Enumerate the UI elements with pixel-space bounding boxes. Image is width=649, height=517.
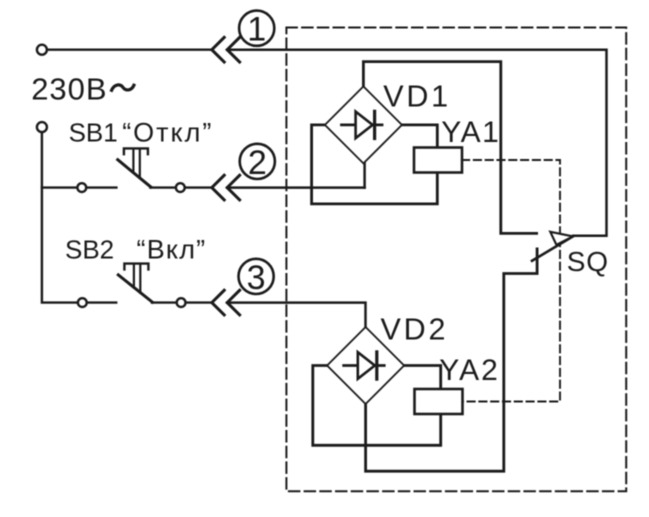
- SB1 actuator stem left: [132, 150, 134, 173]
- SB1 actuator cap: [124, 148, 148, 154]
- bridge VD1 left loop to YA1 bottom: [312, 125, 438, 204]
- node circle 3: [239, 259, 274, 294]
- label Vkl: [137, 235, 207, 265]
- svg-text:SB2: SB2: [65, 235, 114, 265]
- bridge VD1 top lead to SQ: [363, 62, 536, 234]
- VD1 diode triangle: [356, 112, 373, 139]
- connector X3 chevron 2: [227, 290, 239, 315]
- SB2 right contact circle: [177, 298, 186, 307]
- connector X2 chevron 2: [227, 175, 239, 200]
- SB2 left contact circle: [78, 298, 87, 307]
- label VD1: [383, 79, 451, 113]
- VD2 diode axis: [344, 364, 385, 367]
- svg-text:YA2: YA2: [439, 354, 499, 387]
- label SB2: [65, 235, 114, 265]
- SB2 wire left: [76, 301, 79, 303]
- connector X1 chevron 2: [227, 37, 239, 62]
- svg-text:230В: 230В: [31, 72, 107, 107]
- bridge VD1 bottom lead: [363, 163, 366, 188]
- button SB1: [42, 148, 212, 192]
- SB2 actuator cap: [124, 264, 148, 270]
- label SB1: [69, 118, 118, 148]
- SB1 blade: [118, 160, 151, 187]
- svg-text:SB1: SB1: [69, 118, 118, 148]
- SB2 wire to gap: [87, 301, 116, 303]
- button SB2: [78, 264, 212, 307]
- SB1 right contact circle: [176, 183, 185, 192]
- svg-text:VD2: VD2: [381, 313, 449, 347]
- bridge VD2 diamond: [327, 327, 404, 404]
- VD1 diode axis: [342, 124, 383, 127]
- SB2 wire right of blade: [152, 301, 177, 303]
- wire 1 left segment: [47, 49, 212, 51]
- coil YA1: [414, 148, 462, 173]
- terminal circle left rail: [37, 122, 47, 132]
- label YA2: [439, 354, 499, 387]
- VD2 diode triangle: [358, 352, 375, 379]
- svg-text:3: 3: [247, 259, 266, 297]
- SB1 wire left: [42, 186, 77, 188]
- left rail vertical wire: [42, 132, 78, 302]
- svg-text:“Откл”: “Откл”: [122, 118, 213, 148]
- label VD2: [381, 313, 449, 347]
- dashed enclosure box: [286, 28, 626, 492]
- switch SQ blade: [532, 236, 573, 261]
- wire 3 to VD2 bridge: [227, 303, 365, 328]
- switch SQ triangle: [550, 232, 573, 245]
- label SQ: [567, 246, 609, 277]
- svg-text:VD1: VD1: [383, 79, 451, 113]
- SB2 wire to connector: [186, 301, 212, 303]
- SB2 actuator stem left: [133, 265, 135, 288]
- label YA1: [441, 116, 500, 149]
- SB1 wire to connector: [185, 186, 212, 188]
- terminal circle top-left: [37, 45, 47, 55]
- connector X1 chevron 1: [212, 37, 224, 62]
- SB1 wire right of blade: [150, 186, 176, 188]
- bridge VD1 diamond: [325, 86, 402, 163]
- node circle 1: [239, 11, 274, 46]
- VD2 diode cathode bar: [375, 352, 378, 379]
- VD1 diode cathode bar: [373, 111, 376, 138]
- svg-text:2: 2: [248, 144, 267, 182]
- SB1 wire to gap: [86, 186, 116, 188]
- label Otkl: [122, 118, 213, 148]
- bridge VD1 right lead to YA1 top: [402, 125, 438, 148]
- svg-text:SQ: SQ: [567, 246, 609, 277]
- SB1 left contact circle: [77, 183, 86, 192]
- SB1 actuator stem right: [139, 150, 141, 178]
- bridge VD2 left loop to YA2 bottom: [313, 366, 441, 446]
- svg-text:“Вкл”: “Вкл”: [137, 235, 207, 265]
- coil YA2: [415, 389, 463, 414]
- label 230V supply: [31, 72, 107, 107]
- connector X2 chevron 1: [212, 175, 224, 200]
- bridge VD2 right lead to YA2 top: [404, 366, 441, 390]
- svg-text:YA1: YA1: [441, 116, 500, 149]
- SB2 actuator stem right: [139, 265, 141, 293]
- mechanical link dashed YA1-SQ-YA2: [462, 160, 560, 402]
- wire 2 to VD1 bridge: [227, 186, 364, 189]
- tilde AC symbol: [112, 85, 134, 90]
- connector X3 chevron 1: [212, 290, 224, 315]
- wire 1 into box, right rail down to SQ right stub: [227, 50, 606, 236]
- node circle 2: [240, 144, 275, 179]
- SQ bottom lead through VD2 bottom: [366, 249, 537, 471]
- SB2 blade: [118, 275, 152, 302]
- svg-text:1: 1: [247, 11, 266, 49]
